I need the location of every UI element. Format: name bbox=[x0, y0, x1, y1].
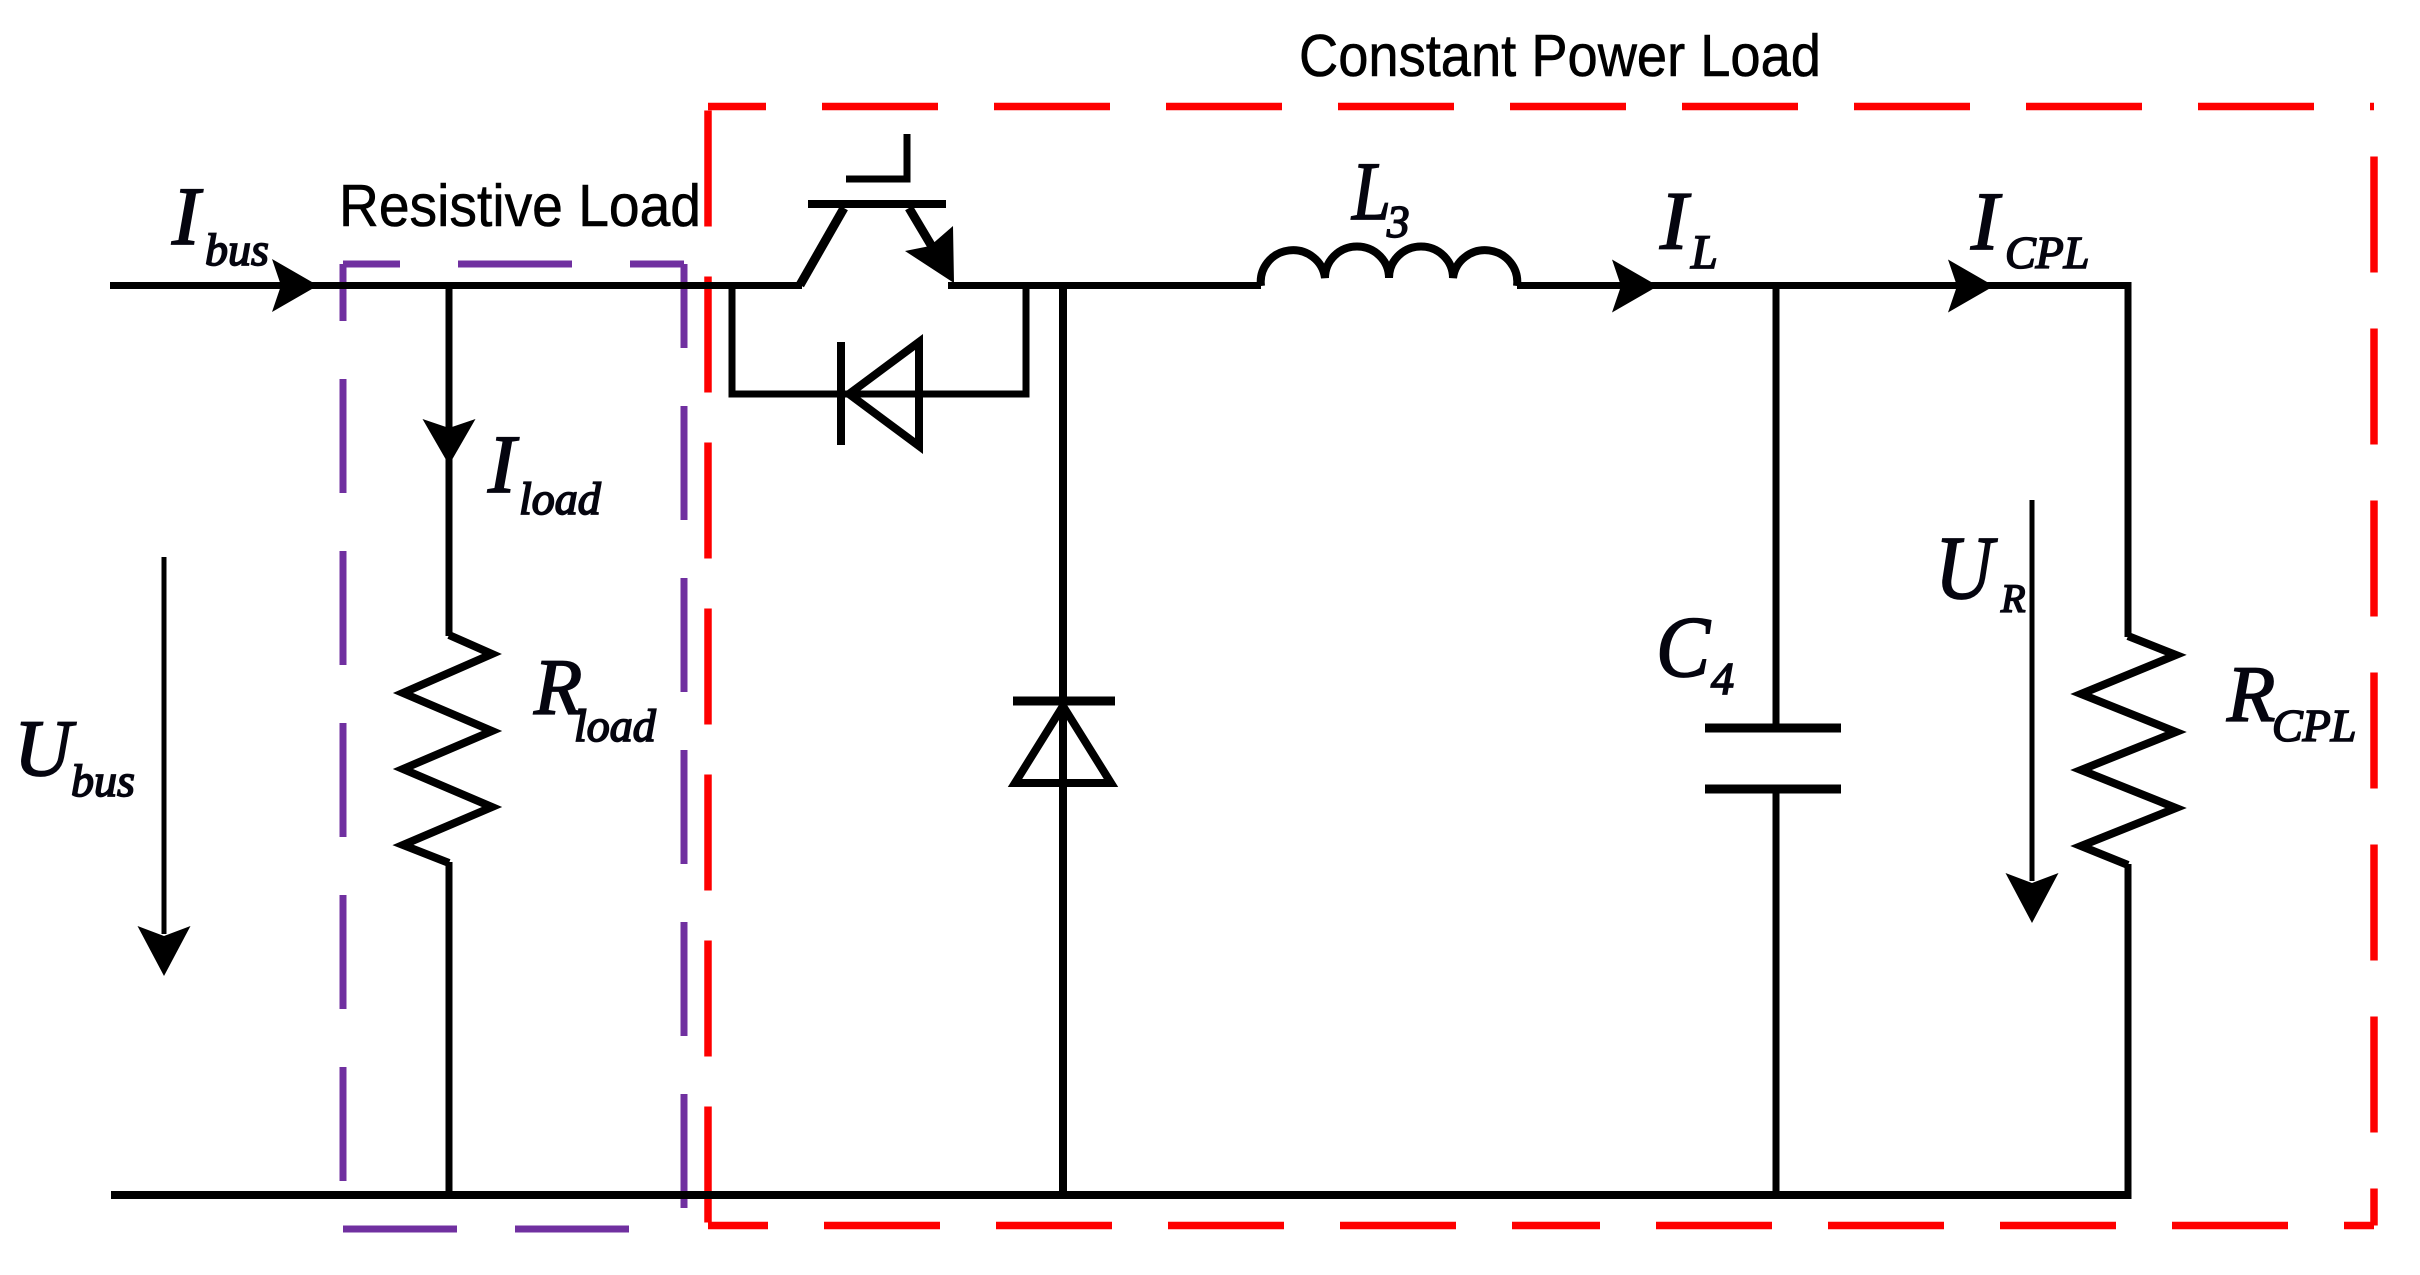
wire branch diode D1 bbox=[1059, 282, 1067, 1195]
arrow U_bus bbox=[162, 557, 167, 934]
capacitor C4 top plate bbox=[1705, 724, 1841, 733]
diode D2 antiparallel loop wire left bbox=[729, 282, 736, 394]
wire emitter to inductor bbox=[948, 282, 1261, 289]
transistor Q1 (IGBT) gate lead bbox=[846, 134, 907, 179]
wire branch R_load lower bbox=[446, 862, 453, 1195]
svg-text:I: I bbox=[487, 418, 519, 510]
arrow U_R bbox=[2030, 500, 2035, 881]
box Constant Power Load (red dashed) bbox=[708, 107, 2374, 1226]
wire inductor to corner bbox=[1517, 282, 2132, 289]
wire branch R_load upper bbox=[446, 285, 453, 636]
inductor L3 bbox=[1261, 247, 1518, 286]
svg-text:L: L bbox=[1351, 145, 1391, 237]
arrow I_CPL bbox=[1948, 260, 1994, 313]
svg-text:U: U bbox=[14, 705, 77, 793]
svg-text:CPL: CPL bbox=[2272, 700, 2356, 751]
transistor Q1 collector stroke bbox=[800, 208, 844, 285]
svg-text:bus: bus bbox=[205, 224, 269, 275]
svg-text:3: 3 bbox=[1386, 197, 1410, 247]
diode D2 cathode bar bbox=[837, 342, 845, 445]
transistor Q1 gate bar bbox=[808, 200, 946, 208]
svg-text:I: I bbox=[171, 170, 203, 262]
box Resistive Load (purple dashed) bbox=[343, 264, 684, 1229]
svg-text:I: I bbox=[1970, 175, 2002, 267]
diode D2 loop wire right bbox=[1023, 282, 1030, 394]
svg-text:Resistive Load: Resistive Load bbox=[339, 173, 701, 239]
wire bus top left bbox=[110, 282, 802, 289]
wire branch R_CPL lower bbox=[2125, 864, 2132, 1195]
svg-text:bus: bus bbox=[71, 755, 135, 806]
svg-text:I: I bbox=[1659, 175, 1691, 267]
arrow I_bus bbox=[272, 259, 318, 312]
resistor R_load bbox=[403, 635, 492, 863]
diode D2 triangle bbox=[849, 342, 919, 446]
capacitor C4 bottom plate bbox=[1705, 785, 1841, 794]
svg-text:load: load bbox=[519, 473, 602, 524]
diode D1 cathode bar bbox=[1013, 697, 1115, 706]
wire bottom bus bbox=[111, 1191, 2132, 1199]
diode D2 loop wire bottom bbox=[729, 391, 1030, 398]
arrow I_L bbox=[1612, 260, 1658, 313]
wire branch R_CPL upper bbox=[2125, 282, 2132, 637]
arrow I_load bbox=[423, 419, 476, 465]
svg-text:L: L bbox=[1690, 226, 1718, 279]
transistor Q1 emitter arrow bbox=[905, 226, 954, 283]
svg-text:R: R bbox=[2226, 652, 2275, 739]
svg-text:Constant Power Load: Constant Power Load bbox=[1299, 23, 1821, 89]
wire branch C4 lower bbox=[1773, 789, 1780, 1195]
resistor R_CPL bbox=[2081, 636, 2176, 865]
svg-text:C: C bbox=[1656, 598, 1711, 695]
svg-text:4: 4 bbox=[1711, 653, 1734, 704]
svg-text:CPL: CPL bbox=[2005, 227, 2089, 278]
diode D1 triangle bbox=[1015, 706, 1111, 783]
transistor Q1 emitter stroke bbox=[909, 208, 934, 250]
wire branch C4 upper bbox=[1773, 282, 1780, 728]
svg-text:U: U bbox=[1935, 519, 1997, 618]
svg-text:load: load bbox=[574, 700, 657, 751]
svg-text:R: R bbox=[2000, 576, 2025, 621]
